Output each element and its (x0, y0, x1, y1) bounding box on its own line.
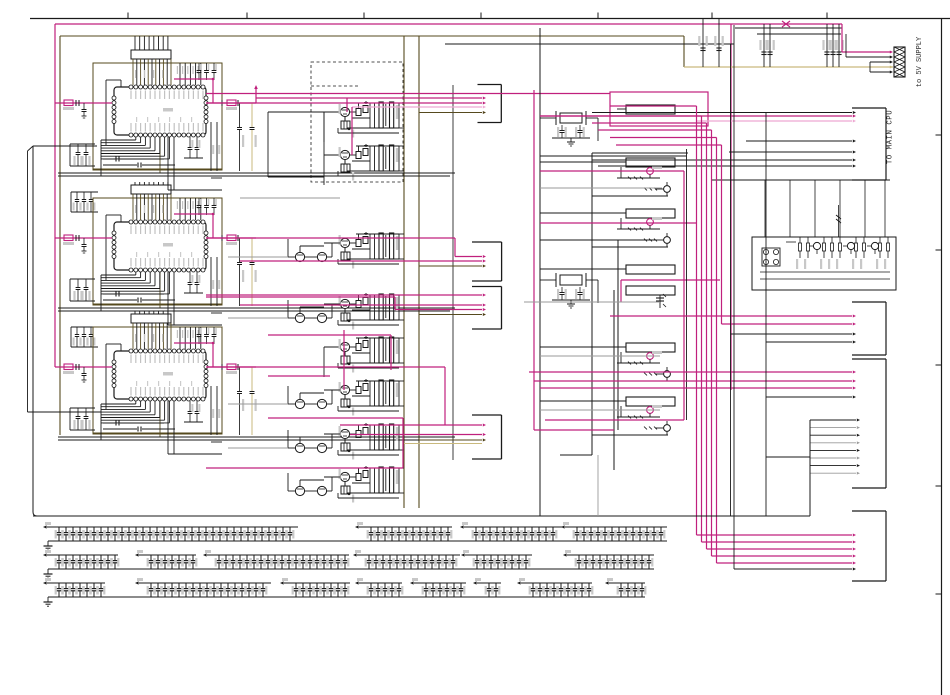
capacitor (510, 527, 512, 532)
capacitor (648, 555, 650, 560)
transistor pair D7 (295, 443, 304, 452)
capacitor (497, 555, 499, 560)
feeder wires above right block (712, 179, 890, 181)
capacitor cluster under group U1 (71, 191, 98, 193)
relay bar K3 (626, 209, 675, 218)
capacitor (337, 555, 339, 560)
capacitor (219, 527, 221, 532)
decoupling caps right of IC U1 (239, 103, 241, 127)
connector bracket J-R1 (885, 108, 887, 180)
cap group row583 g7 (521, 582, 592, 584)
black horizontal y156 (540, 155, 687, 157)
capacitor (425, 583, 427, 588)
capacitor (412, 527, 414, 532)
border: right frame line (941, 19, 943, 695)
capacitor (447, 527, 449, 532)
IC U2 right pins (204, 231, 208, 235)
capacitor (267, 555, 269, 560)
load capacitors X2 (561, 287, 563, 292)
capacitor (476, 555, 478, 560)
IC U3 top pins (129, 349, 133, 353)
capacitor (247, 527, 249, 532)
wire: magenta branch to right bundle (730, 24, 732, 390)
cap pair C-t1 (702, 19, 704, 68)
wire: olive vertical rails mid (403, 36, 405, 508)
capacitor bank above IC U2 (198, 198, 200, 205)
capacitor (268, 527, 270, 532)
arrows into J-B3 (206, 294, 482, 296)
driver sub-block right (752, 237, 896, 290)
IC U3 top pin wires (132, 323, 134, 349)
series capacitor in rail U3 (115, 421, 117, 426)
capacitor (65, 583, 67, 588)
capacitor (489, 527, 491, 532)
capacitor (254, 527, 256, 532)
capacitor (58, 527, 60, 532)
capacitor (275, 527, 277, 532)
capacitor (262, 583, 264, 588)
capacitor (641, 583, 643, 588)
capacitor (384, 583, 386, 588)
capacitor (330, 583, 332, 588)
capacitor (128, 527, 130, 532)
capacitor (553, 583, 555, 588)
cap group row583 g3 (284, 582, 350, 584)
capacitor (239, 555, 241, 560)
wire: olive power rail (60, 35, 684, 37)
capacitor (72, 527, 74, 532)
capacitor (653, 527, 655, 532)
capacitor (460, 583, 462, 588)
transistor pair D8 (295, 486, 304, 495)
capacitor (107, 527, 109, 532)
IC U1 top pins (129, 85, 133, 89)
capacitor C under bead U1 (83, 103, 85, 109)
capacitor (212, 527, 214, 532)
magenta net weaving in driver column (206, 93, 610, 95)
cap group row555 g6 (567, 554, 654, 556)
capacitor (611, 527, 613, 532)
IC U3 bottom pins (129, 397, 133, 401)
capacitor (234, 583, 236, 588)
capacitor (309, 583, 311, 588)
magenta horizontal y420 (545, 419, 684, 421)
capacitor (330, 555, 332, 560)
capacitor (398, 527, 400, 532)
capacitor (281, 555, 283, 560)
cap group row583 g8 (609, 582, 645, 584)
capacitor C under bead U3 (83, 367, 85, 373)
caps mid below IC U1 (189, 137, 191, 147)
snubber block D4 (341, 313, 350, 321)
capacitor (107, 555, 109, 560)
wire: main magenta supply bus (55, 23, 842, 25)
capacitor (150, 555, 152, 560)
wires below IC U2 (135, 272, 137, 275)
capacitor pair low-left of IC U3 (70, 407, 95, 409)
output FET bars D2 (379, 145, 383, 171)
IC U3 pin name labels (130, 355, 131, 364)
capacitor (632, 527, 634, 532)
output FET bars D5 (379, 337, 383, 363)
base resistor Q13 (644, 373, 647, 376)
capacitor (453, 583, 455, 588)
snubber block D5 (341, 356, 350, 364)
capacitor (482, 527, 484, 532)
load capacitors X1 (561, 125, 563, 130)
vertical rail x453 (452, 85, 454, 460)
IC U1 label box (131, 50, 171, 59)
ground (47, 569, 49, 574)
IC U2 bottom pins (129, 268, 133, 272)
capacitor (150, 583, 152, 588)
arrows into J-R3 magenta (529, 371, 852, 373)
capacitor (620, 583, 622, 588)
cap group row583 g1 (47, 582, 105, 584)
capacitor (606, 555, 608, 560)
gate network D3 (350, 242, 356, 244)
capacitor (620, 555, 622, 560)
capacitor (192, 583, 194, 588)
arrows into J-R4 (697, 534, 853, 536)
capacitor (517, 527, 519, 532)
ground (47, 597, 49, 602)
transistor Q-D1a (340, 107, 349, 116)
IC U1 left pins (112, 96, 116, 100)
dashed enclosure (311, 62, 403, 182)
border: top frame line (30, 18, 950, 20)
IC U2 olive drop wire (159, 272, 161, 308)
capacitor (178, 555, 180, 560)
capacitor (288, 555, 290, 560)
capacitor (233, 527, 235, 532)
capacitor (323, 555, 325, 560)
long rails below IC U2 (58, 307, 455, 309)
capacitor (177, 527, 179, 532)
capacitor (302, 555, 304, 560)
capacitor (58, 555, 60, 560)
capacitor (295, 555, 297, 560)
capacitor (260, 555, 262, 560)
capacitor (170, 527, 172, 532)
capacitor (205, 527, 207, 532)
capacitor (599, 555, 601, 560)
capacitor (403, 555, 405, 560)
capacitor (641, 555, 643, 560)
output FET bars D6 (379, 380, 383, 406)
resonator X1 (560, 113, 582, 123)
driver block outline (591, 153, 593, 455)
transistor Q12a (647, 219, 654, 226)
capacitor (431, 555, 433, 560)
capacitor (552, 527, 554, 532)
capacitor (625, 527, 627, 532)
capacitor (282, 527, 284, 532)
transistor Q-D6a (340, 385, 349, 394)
capacitor (100, 583, 102, 588)
IC U3 olive enclosure (93, 327, 222, 434)
connector bracket J-R4 (885, 511, 887, 581)
capacitor (578, 555, 580, 560)
output FET bars D8 (379, 467, 383, 493)
grey wires relay column (540, 187, 662, 189)
svg-text:TO MAIN CPU: TO MAIN CPU (887, 110, 895, 164)
capacitor (585, 555, 587, 560)
capacitor (157, 583, 159, 588)
magenta riser above IC U2 (174, 213, 213, 215)
capacitor (424, 555, 426, 560)
transistor Q13b (664, 371, 671, 378)
photocoupler PC1 (762, 248, 780, 266)
relay bar K2 (626, 158, 675, 167)
capacitor (588, 583, 590, 588)
snubber block D1 (341, 121, 350, 129)
capacitor (546, 583, 548, 588)
IC U1 bottom pins (129, 133, 133, 137)
base resistor Q14 (644, 427, 647, 430)
capacitor (213, 583, 215, 588)
base resistor Q11 (644, 188, 647, 191)
capacitor (337, 583, 339, 588)
capacitor (391, 583, 393, 588)
capacitor (439, 583, 441, 588)
inductor mark (836, 215, 841, 219)
capacitor (289, 527, 291, 532)
capacitor (199, 583, 201, 588)
resistor array right block (799, 237, 801, 243)
capacitor (545, 527, 547, 532)
capacitor cluster under group U3 (134, 311, 136, 314)
capacitor (241, 583, 243, 588)
IC U2 top pins (129, 220, 133, 224)
transistor Q11b (664, 186, 671, 193)
capacitor (613, 555, 615, 560)
capacitor (410, 555, 412, 560)
capacitor (274, 555, 276, 560)
capacitor (597, 527, 599, 532)
capacitor (389, 555, 391, 560)
connector bracket J-B2 (501, 242, 503, 281)
cap group row583 g4 (359, 582, 402, 584)
capacitor (382, 555, 384, 560)
capacitor cluster under group U2 (71, 326, 98, 328)
wires to supply connector (846, 56, 890, 58)
capacitor (496, 527, 498, 532)
capacitor (368, 555, 370, 560)
capacitor (384, 527, 386, 532)
arrows into J-R3 data bus (810, 419, 856, 421)
cell output stubs D7 (399, 424, 404, 426)
capacitor (539, 583, 541, 588)
gate network D5 (350, 346, 356, 348)
bottom bus row y583 (48, 596, 645, 598)
IC U3 left feed wire (105, 344, 107, 409)
bottom bus row y527 (48, 540, 667, 542)
capacitor (344, 583, 346, 588)
capacitor (483, 555, 485, 560)
capacitor (248, 583, 250, 588)
IC U2 pin name labels (130, 226, 131, 235)
capacitor (72, 555, 74, 560)
output FET bars D3 (379, 233, 383, 259)
capacitor (142, 527, 144, 532)
IC U2 label box (131, 185, 171, 194)
capacitor (135, 527, 137, 532)
grey wire to pair D4 (228, 317, 288, 319)
ferrite bead FB left of IC U3 (55, 366, 112, 368)
cap group row555 g2 (139, 554, 196, 556)
capacitor (114, 527, 116, 532)
snubber block D6 (341, 399, 350, 407)
svg-text:to 5V SUPPLY: to 5V SUPPLY (916, 36, 924, 87)
capacitor (488, 583, 490, 588)
cap group row527 g1 (47, 526, 298, 528)
cell output stubs D2 (399, 145, 404, 147)
capacitor (618, 527, 620, 532)
snubber block D2 (341, 164, 350, 172)
connector bracket J-B4 (501, 415, 503, 459)
IC U2 body (114, 222, 206, 270)
cap group row527 g3 (464, 526, 562, 528)
left return wires (33, 145, 97, 147)
output FET bars D4 (379, 294, 383, 320)
ferrite bead FB left of IC U2 (55, 237, 112, 239)
IC U1 right pins (204, 96, 208, 100)
capacitor (646, 527, 648, 532)
capacitor (86, 527, 88, 532)
capacitor (225, 555, 227, 560)
capacitor (261, 527, 263, 532)
IC U3 label box (131, 314, 171, 323)
capacitor (344, 555, 346, 560)
capacitor (445, 555, 447, 560)
capacitor (452, 555, 454, 560)
decoupling caps right of IC U3 (239, 367, 241, 391)
capacitor (316, 583, 318, 588)
capacitor (627, 555, 629, 560)
capacitor pair low-left of IC U1 (70, 143, 95, 145)
IC U2 olive enclosure (93, 198, 222, 305)
transistor Q-D2a (340, 150, 349, 159)
capacitor (370, 527, 372, 532)
capacitor (604, 527, 606, 532)
capacitor bank above IC U1 (198, 63, 200, 70)
capacitor (574, 583, 576, 588)
wire: cell column left rail (323, 112, 325, 155)
arrows into J-R1 (540, 115, 852, 117)
capacitor (295, 583, 297, 588)
capacitor (504, 555, 506, 560)
capacitor (432, 583, 434, 588)
ferrite bead FB left of IC U1 (55, 102, 112, 104)
transistor pair D3 (295, 252, 304, 261)
output FET bars D1 (379, 102, 383, 128)
snubber block D8 (341, 486, 350, 494)
IC U1 pin name labels (130, 91, 131, 100)
resonator X2 (560, 275, 582, 285)
capacitor (302, 583, 304, 588)
capacitor (309, 555, 311, 560)
capacitor (226, 527, 228, 532)
capacitor (446, 583, 448, 588)
capacitor bank above IC U3 (198, 327, 200, 334)
capacitor (198, 527, 200, 532)
long rails below IC U3 (58, 436, 455, 438)
capacitor (206, 583, 208, 588)
capacitor (157, 555, 159, 560)
capacitor (246, 555, 248, 560)
capacitor (191, 527, 193, 532)
capacitor (524, 527, 526, 532)
capacitor (639, 527, 641, 532)
transistor Q14a (647, 407, 654, 414)
cap group row555 g3 (207, 554, 349, 556)
cell output stubs D4 (399, 294, 404, 296)
capacitor (100, 555, 102, 560)
right-side wires below IC U1 (210, 122, 212, 171)
capacitor (531, 527, 533, 532)
cell output stubs D3 (399, 233, 404, 235)
IC U1 left feed wire (105, 80, 107, 145)
transistor Q12b (664, 237, 671, 244)
IC U1 olive enclosure (93, 63, 222, 170)
cell output stubs D6 (399, 380, 404, 382)
IC U3 right pins (204, 360, 208, 364)
relay bar K5 (626, 286, 675, 295)
snubber block D3 (341, 252, 350, 260)
capacitor (114, 555, 116, 560)
cap group row527 g2 (359, 526, 452, 528)
capacitor (634, 583, 636, 588)
magenta riser above IC U1 (174, 78, 213, 80)
gate network D8 (350, 476, 356, 478)
capacitor pair low-left of IC U2 (70, 278, 95, 280)
IC U1 olive drop wire (159, 137, 161, 173)
capacitor (184, 527, 186, 532)
capacitor (164, 583, 166, 588)
connector bracket J-B3 (501, 287, 503, 330)
capacitor (391, 527, 393, 532)
ground X2 (570, 300, 572, 304)
capacitor (592, 555, 594, 560)
capacitor (518, 555, 520, 560)
relay bar K6 (626, 343, 675, 352)
capacitor (511, 555, 513, 560)
arrows into J-B4 (340, 424, 482, 426)
cell output stubs D8 (399, 467, 404, 469)
IC U3 body (114, 351, 206, 399)
capacitor (538, 527, 540, 532)
capacitor (227, 583, 229, 588)
base resistor Q12 (644, 239, 647, 242)
right-side wires below IC U3 (210, 386, 212, 435)
IC U2 left feed wire (105, 215, 107, 280)
capacitor (149, 527, 151, 532)
transistor Q13a (647, 353, 654, 360)
capacitor (426, 527, 428, 532)
relay bar K4 (626, 265, 675, 274)
cap group row555 g5 (465, 554, 532, 556)
ground X1 (570, 138, 572, 142)
capacitor (232, 555, 234, 560)
capacitor (581, 583, 583, 588)
capacitor (253, 555, 255, 560)
caps mid below IC U3 (189, 401, 191, 411)
capacitor (532, 583, 534, 588)
connector bracket J-R3 (885, 359, 887, 488)
capacitor C under bead U2 (83, 238, 85, 244)
capacitor (65, 527, 67, 532)
